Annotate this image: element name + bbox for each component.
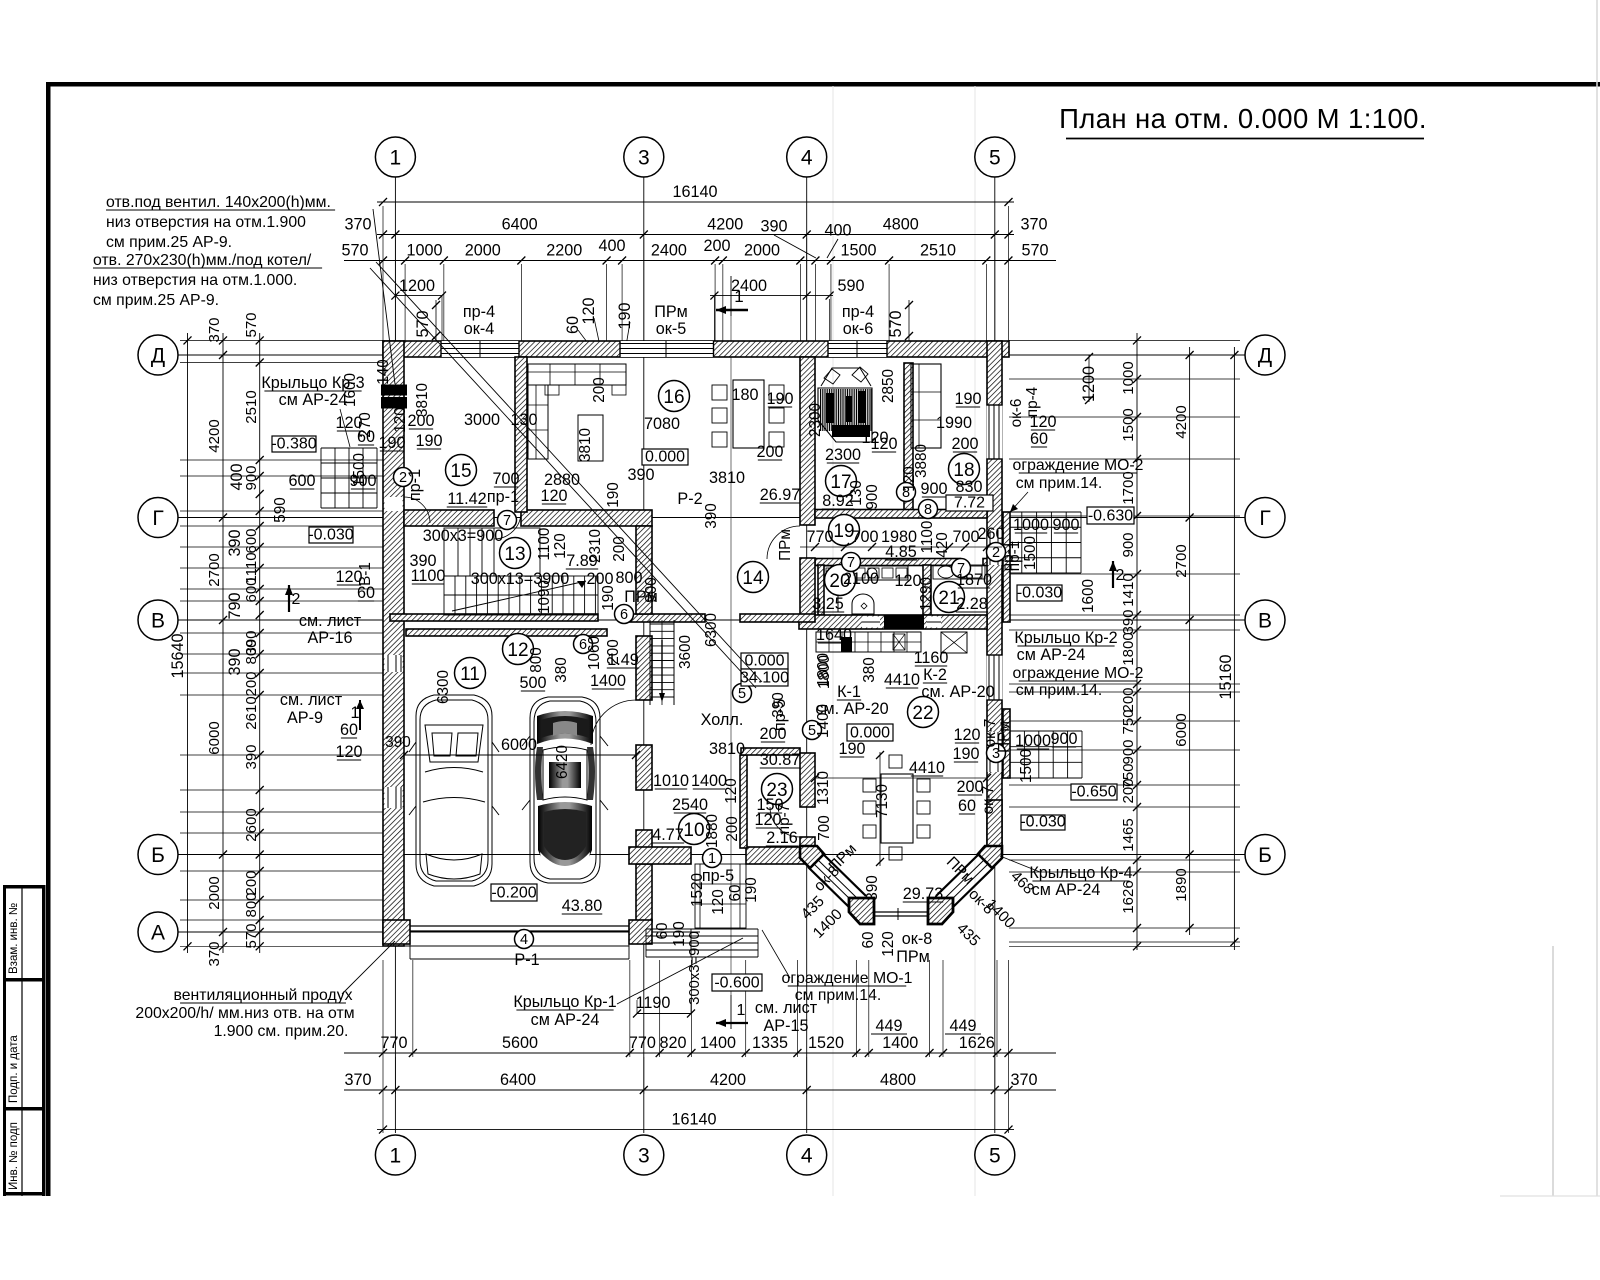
bay wall stub right <box>987 800 1002 850</box>
wall room17-18 partition <box>904 363 913 513</box>
sheet bottom shadow <box>1500 1195 1600 1197</box>
svg-text:2510: 2510 <box>920 242 956 260</box>
svg-text:7: 7 <box>847 555 855 571</box>
door arc hall <box>767 526 800 559</box>
wall garage bottom left block <box>383 920 410 944</box>
svg-text:2200: 2200 <box>546 242 582 260</box>
svg-text:1465: 1465 <box>1120 818 1137 851</box>
leader MO-2 1 <box>1010 492 1028 512</box>
axis circle В left <box>138 600 178 640</box>
svg-text:200: 200 <box>759 725 786 743</box>
wall column4 mid <box>800 558 815 622</box>
dim line bottom axes <box>344 1089 1056 1091</box>
svg-text:590: 590 <box>837 277 864 295</box>
svg-text:790: 790 <box>226 592 244 619</box>
small circle 8 <box>919 500 938 519</box>
small circle 1 <box>703 849 722 868</box>
svg-text:900: 900 <box>643 577 660 603</box>
svg-text:1335: 1335 <box>752 1034 788 1052</box>
svg-text:пр-1: пр-1 <box>406 469 424 501</box>
svg-text:см АР-24: см АР-24 <box>1032 881 1101 899</box>
svg-text:3.25: 3.25 <box>812 595 844 613</box>
porch Kr-4 right <box>1009 731 1011 778</box>
svg-text:2300: 2300 <box>807 403 824 437</box>
axis circle Б right <box>1245 835 1285 875</box>
svg-text:60: 60 <box>958 797 976 815</box>
svg-text:390: 390 <box>760 218 787 236</box>
svg-text:200: 200 <box>1120 778 1137 803</box>
svg-text:2600: 2600 <box>243 808 260 841</box>
elev -0.630 <box>1087 507 1134 524</box>
svg-text:190: 190 <box>743 877 760 903</box>
svg-text:1290: 1290 <box>918 577 935 611</box>
fold mark line 1 <box>832 86 834 1196</box>
small circle 7 <box>952 559 971 578</box>
elev -0.030 left <box>309 527 353 543</box>
row axis line Б <box>178 854 1245 856</box>
svg-text:6300: 6300 <box>703 613 720 647</box>
svg-text:4410: 4410 <box>909 759 945 777</box>
svg-text:Б: Б <box>151 844 165 867</box>
room21 fixtures <box>933 565 985 579</box>
svg-text:8: 8 <box>924 502 932 518</box>
svg-text:7.72: 7.72 <box>954 495 985 512</box>
room circle 13 <box>500 538 531 569</box>
room circle 19 <box>829 515 860 546</box>
svg-text:200: 200 <box>956 778 983 796</box>
svg-text:800: 800 <box>615 569 642 587</box>
dim line bottom 16140 <box>377 1129 1014 1131</box>
svg-text:60: 60 <box>1030 430 1048 448</box>
wall kitchen top partition <box>815 559 960 566</box>
dim line bottom detailed <box>344 1052 1056 1054</box>
svg-text:820: 820 <box>659 1034 686 1052</box>
svg-text:570: 570 <box>243 312 260 337</box>
svg-text:В-1: В-1 <box>357 562 374 586</box>
svg-text:5: 5 <box>989 147 1001 170</box>
wall garage top B <box>406 629 607 636</box>
svg-text:600: 600 <box>243 528 260 553</box>
wall kitchen left partition <box>818 565 824 615</box>
column axis line 5 <box>994 177 996 1133</box>
svg-text:В: В <box>1258 610 1272 633</box>
svg-text:120: 120 <box>861 429 888 447</box>
svg-text:отв. 270x230(h)мм./под котел/: отв. 270x230(h)мм./под котел/ <box>93 252 312 269</box>
svg-text:770: 770 <box>629 1034 656 1052</box>
svg-text:Взам. инв. №: Взам. инв. № <box>8 903 20 974</box>
svg-text:390: 390 <box>385 734 411 751</box>
svg-text:1890: 1890 <box>1173 868 1190 901</box>
svg-text:5: 5 <box>738 686 746 702</box>
svg-text:4200: 4200 <box>707 216 743 234</box>
svg-text:30.87: 30.87 <box>760 751 801 769</box>
svg-text:см. лист: см. лист <box>280 691 343 709</box>
svg-text:1500: 1500 <box>1018 749 1035 783</box>
wall column3 <box>636 526 652 614</box>
elev 0.000 room16 <box>642 449 688 465</box>
K2 unit <box>941 632 967 653</box>
dim line top 16140 <box>377 201 1014 203</box>
top extension lines <box>382 206 384 341</box>
svg-text:1870: 1870 <box>956 571 992 589</box>
left extension lines <box>180 339 383 341</box>
svg-text:-0.650: -0.650 <box>1071 784 1116 801</box>
svg-text:370: 370 <box>344 216 371 234</box>
svg-text:3: 3 <box>638 147 650 170</box>
svg-text:План на отм. 0.000 М 1:100.: План на отм. 0.000 М 1:100. <box>1059 103 1427 134</box>
wall room23 left <box>740 755 747 848</box>
svg-text:1600: 1600 <box>1080 579 1097 613</box>
svg-text:К-2: К-2 <box>923 666 947 684</box>
svg-text:2700: 2700 <box>206 553 223 586</box>
svg-text:190: 190 <box>952 745 979 763</box>
svg-text:200: 200 <box>243 671 260 696</box>
dining table room16 <box>733 380 764 448</box>
svg-text:ок-5: ок-5 <box>656 320 686 338</box>
svg-text:1400: 1400 <box>815 704 832 738</box>
small circle 2 <box>394 468 413 487</box>
svg-text:см АР-24: см АР-24 <box>279 391 348 409</box>
axis circle 5 top <box>975 137 1015 177</box>
dim line right 15160 <box>1233 347 1235 950</box>
wall kitchen partition 20-21 <box>923 565 931 615</box>
svg-text:3810: 3810 <box>577 428 594 462</box>
svg-text:4.85: 4.85 <box>885 543 917 561</box>
svg-text:2000: 2000 <box>206 876 223 909</box>
svg-text:1000: 1000 <box>1015 732 1051 750</box>
svg-text:770: 770 <box>380 1034 407 1052</box>
title block <box>3 885 6 1196</box>
svg-text:190: 190 <box>415 432 442 450</box>
dim line 4410 dining <box>815 777 987 779</box>
svg-text:390: 390 <box>226 529 244 556</box>
svg-text:1400: 1400 <box>590 672 626 690</box>
svg-text:1626: 1626 <box>959 1034 995 1052</box>
room circle 15 <box>446 455 477 486</box>
leader produh <box>342 941 395 994</box>
small circle 8 <box>897 483 916 502</box>
svg-text:390: 390 <box>243 744 260 769</box>
leader MO-1 <box>762 930 790 978</box>
svg-text:4: 4 <box>801 1145 813 1168</box>
svg-text:16: 16 <box>663 387 684 408</box>
svg-text:13: 13 <box>504 544 525 565</box>
kitchen counters <box>824 566 908 580</box>
svg-text:120: 120 <box>335 743 362 761</box>
svg-text:120: 120 <box>392 407 409 433</box>
svg-text:низ отверстия на отм.1.900: низ отверстия на отм.1.900 <box>106 214 306 231</box>
svg-text:ПРм: ПРм <box>777 529 794 561</box>
svg-text:7080: 7080 <box>644 415 680 433</box>
small circle 5 <box>803 721 822 740</box>
svg-text:АР-16: АР-16 <box>308 629 353 647</box>
dim 2400 590 top <box>710 295 833 297</box>
svg-text:190: 190 <box>605 482 622 508</box>
svg-text:800: 800 <box>243 639 260 664</box>
svg-text:1: 1 <box>708 851 716 867</box>
washbasin kitchen <box>852 594 874 614</box>
svg-text:190: 190 <box>616 302 634 329</box>
svg-text:180: 180 <box>731 386 758 404</box>
wall garage bottom right block <box>629 920 652 944</box>
svg-text:300x3=900: 300x3=900 <box>687 931 703 1005</box>
svg-text:вентиляционный продух: вентиляционный продух <box>173 987 352 1004</box>
svg-text:ок-6: ок-6 <box>1008 399 1025 428</box>
svg-text:-0.600: -0.600 <box>714 975 759 992</box>
svg-text:1400: 1400 <box>691 772 727 790</box>
svg-text:ок-4: ок-4 <box>464 320 494 338</box>
svg-text:800: 800 <box>243 892 260 917</box>
num 7.72 box <box>946 495 993 511</box>
svg-text:Инв. № подп: Инв. № подп <box>8 1122 20 1190</box>
svg-text:1190: 1190 <box>636 994 671 1012</box>
wall column4 upper <box>800 357 815 525</box>
svg-text:15: 15 <box>450 461 471 482</box>
svg-text:370: 370 <box>206 317 223 342</box>
dim line top detailed <box>344 260 1056 262</box>
kitchenette K1 row <box>816 632 921 652</box>
svg-text:449: 449 <box>875 1017 902 1035</box>
svg-text:260: 260 <box>977 525 1004 543</box>
svg-text:900: 900 <box>864 484 881 510</box>
svg-text:1: 1 <box>737 1002 746 1019</box>
svg-text:1000: 1000 <box>1120 361 1137 394</box>
svg-text:16140: 16140 <box>672 183 717 201</box>
leader Kr-3 <box>340 409 350 447</box>
svg-text:1500: 1500 <box>840 242 876 260</box>
svg-text:7130: 7130 <box>874 784 891 818</box>
svg-text:190: 190 <box>838 740 865 758</box>
svg-text:190: 190 <box>378 434 405 452</box>
svg-text:200: 200 <box>1120 687 1137 712</box>
small circle 6 <box>615 605 634 624</box>
svg-text:4800: 4800 <box>883 216 919 234</box>
svg-text:-0.030: -0.030 <box>308 527 353 544</box>
wall under kitchen <box>799 615 987 629</box>
svg-text:4.77: 4.77 <box>652 826 684 844</box>
svg-text:ограждение МО-1: ограждение МО-1 <box>782 970 913 987</box>
room circle 18 <box>949 454 980 485</box>
piano room17 <box>818 388 872 442</box>
room circle 16 <box>659 381 690 412</box>
svg-text:АР-15: АР-15 <box>764 1017 809 1035</box>
svg-text:190: 190 <box>671 921 688 947</box>
svg-text:отв.под вентил. 140x200(h)мм.: отв.под вентил. 140x200(h)мм. <box>106 194 331 211</box>
svg-text:120: 120 <box>723 778 740 804</box>
svg-text:1880: 1880 <box>704 814 721 848</box>
svg-text:1: 1 <box>390 147 402 170</box>
dim line left detailed <box>259 333 261 953</box>
leader vent 1 <box>373 209 395 384</box>
dim line top axes <box>377 234 1014 236</box>
svg-text:1: 1 <box>390 1145 402 1168</box>
svg-text:2850: 2850 <box>880 369 897 403</box>
svg-text:1060: 1060 <box>586 636 603 670</box>
svg-text:570: 570 <box>414 310 432 337</box>
svg-text:7.89: 7.89 <box>566 552 598 570</box>
svg-text:ограждение МО-2: ограждение МО-2 <box>1013 457 1144 474</box>
svg-text:570: 570 <box>243 923 260 948</box>
svg-text:770: 770 <box>806 528 833 546</box>
svg-text:200x200/h/ мм.низ отв. на отм: 200x200/h/ мм.низ отв. на отм <box>135 1005 354 1022</box>
wall room23 right lower <box>800 837 815 855</box>
bay bottom window <box>874 911 928 913</box>
svg-text:пр-4: пр-4 <box>463 303 495 321</box>
svg-text:см прим.25 АР-9.: см прим.25 АР-9. <box>106 234 232 251</box>
svg-text:1520: 1520 <box>808 1034 844 1052</box>
room circle 10 <box>679 814 710 845</box>
svg-text:см. АР-20: см. АР-20 <box>921 683 994 701</box>
svg-text:390: 390 <box>627 466 654 484</box>
svg-text:370: 370 <box>206 941 223 966</box>
wall row B left <box>629 847 691 864</box>
svg-text:2000: 2000 <box>465 242 501 260</box>
svg-text:4: 4 <box>801 147 813 170</box>
row axis line Г <box>178 517 1245 519</box>
axis circle В right <box>1245 600 1285 640</box>
small circle 5 <box>733 684 752 703</box>
svg-text:1010: 1010 <box>653 772 689 790</box>
svg-text:4800: 4800 <box>880 1071 916 1089</box>
svg-text:60: 60 <box>340 721 358 739</box>
svg-text:420: 420 <box>934 532 951 558</box>
svg-text:1400: 1400 <box>700 1034 736 1052</box>
svg-text:11.42: 11.42 <box>447 490 486 508</box>
svg-text:6420: 6420 <box>554 745 571 779</box>
svg-text:120: 120 <box>1029 413 1056 431</box>
porch Kr-1 bottom <box>646 928 758 930</box>
svg-text:ок-8: ок-8 <box>902 930 932 948</box>
svg-text:400: 400 <box>228 463 246 490</box>
bay start block left <box>800 846 824 868</box>
row axis line В <box>178 619 1245 621</box>
wall row V right segB <box>740 614 815 622</box>
svg-text:1500: 1500 <box>1120 408 1137 441</box>
svg-text:190: 190 <box>954 390 981 408</box>
svg-text:1600: 1600 <box>342 373 359 407</box>
svg-text:1990: 1990 <box>936 414 972 432</box>
svg-text:пр-1: пр-1 <box>487 488 519 506</box>
small circle 7 <box>842 553 861 572</box>
axis circle 4 bottom <box>787 1135 827 1175</box>
svg-text:К-1: К-1 <box>837 683 861 701</box>
axis circle 3 bottom <box>624 1135 664 1175</box>
svg-text:Холл.: Холл. <box>701 711 744 729</box>
svg-text:570: 570 <box>887 310 905 337</box>
svg-text:7: 7 <box>503 513 511 529</box>
svg-text:АР-9: АР-9 <box>287 709 323 727</box>
svg-text:Г: Г <box>1259 507 1270 530</box>
row axis line А <box>178 931 700 933</box>
sofa room18 <box>911 364 941 448</box>
leader vent 2 <box>370 268 756 688</box>
svg-text:11: 11 <box>460 664 480 685</box>
section line 1-1 <box>730 316 732 995</box>
column axis line 3 <box>643 177 645 1133</box>
svg-text:Р-1: Р-1 <box>514 951 539 969</box>
stove black <box>841 637 852 652</box>
svg-text:600: 600 <box>243 577 260 602</box>
bay window left diagonal <box>808 867 852 910</box>
svg-text:см прим.25 АР-9.: см прим.25 АР-9. <box>93 292 219 309</box>
svg-text:-0.200: -0.200 <box>491 885 536 902</box>
svg-text:пр-5: пр-5 <box>702 867 734 885</box>
svg-text:2540: 2540 <box>672 796 708 814</box>
dim 6000 garage <box>404 754 636 756</box>
svg-text:3600: 3600 <box>677 635 694 669</box>
svg-text:2400: 2400 <box>651 242 687 260</box>
door arc garage <box>591 700 636 745</box>
axis circle Б left <box>138 835 178 875</box>
svg-text:700: 700 <box>492 470 519 488</box>
svg-text:200: 200 <box>756 443 783 461</box>
svg-text:Р-2: Р-2 <box>677 490 702 508</box>
axis circle А left <box>138 912 178 952</box>
fold mark line 2 <box>974 86 976 1196</box>
wall right exterior <box>987 341 1002 855</box>
leader Kr-4 <box>1000 856 1040 872</box>
dim line 19 <box>800 546 1002 548</box>
svg-text:1000: 1000 <box>406 242 442 260</box>
svg-text:Крыльцо Кр-4: Крыльцо Кр-4 <box>1029 864 1132 882</box>
wall left exterior <box>383 341 404 946</box>
svg-text:см АР-24: см АР-24 <box>531 1011 600 1029</box>
row axis line Д <box>178 354 1245 356</box>
sheet right edge shadow <box>1596 0 1598 1196</box>
dim 1200 top <box>395 295 442 297</box>
stair room13 <box>444 528 540 576</box>
svg-text:370: 370 <box>1010 1071 1037 1089</box>
room circle 11 <box>455 658 486 689</box>
garage door lines <box>410 925 629 927</box>
small circle 7 <box>498 511 517 530</box>
svg-text:140: 140 <box>375 359 392 385</box>
svg-text:26.97: 26.97 <box>760 486 801 504</box>
svg-text:200: 200 <box>724 816 741 842</box>
sheet right inner shadow <box>1552 946 1554 1196</box>
svg-text:ПРм: ПРм <box>896 948 930 966</box>
svg-text:Д: Д <box>1258 345 1272 368</box>
column axis line 4 <box>806 177 808 1133</box>
axis circle 3 top <box>624 137 664 177</box>
svg-text:700: 700 <box>952 528 979 546</box>
svg-text:-0.630: -0.630 <box>1088 508 1133 525</box>
svg-text:15160: 15160 <box>1217 654 1235 699</box>
bottom extension lines <box>382 960 384 1057</box>
right extension lines <box>1009 339 1240 341</box>
svg-text:см прим.14.: см прим.14. <box>1016 682 1103 699</box>
svg-text:6000: 6000 <box>206 721 223 754</box>
bay corner block left <box>849 898 874 924</box>
svg-text:190: 190 <box>600 585 617 611</box>
svg-text:200: 200 <box>243 870 260 895</box>
elev -0.380 <box>272 436 316 452</box>
svg-text:900: 900 <box>920 480 947 498</box>
svg-text:830: 830 <box>955 478 982 496</box>
svg-text:3000: 3000 <box>464 411 500 429</box>
svg-text:130: 130 <box>848 480 865 506</box>
svg-text:400: 400 <box>824 222 851 240</box>
svg-text:5600: 5600 <box>502 1034 538 1052</box>
svg-text:22: 22 <box>912 703 933 724</box>
svg-text:Подп. и дата: Подп. и дата <box>8 1035 20 1103</box>
svg-text:6000: 6000 <box>1173 713 1190 746</box>
car left outline <box>409 695 499 886</box>
small circle 6 <box>574 635 593 654</box>
table room16 <box>578 415 603 461</box>
svg-text:370: 370 <box>344 1071 371 1089</box>
axis circle 1 bottom <box>375 1135 415 1175</box>
